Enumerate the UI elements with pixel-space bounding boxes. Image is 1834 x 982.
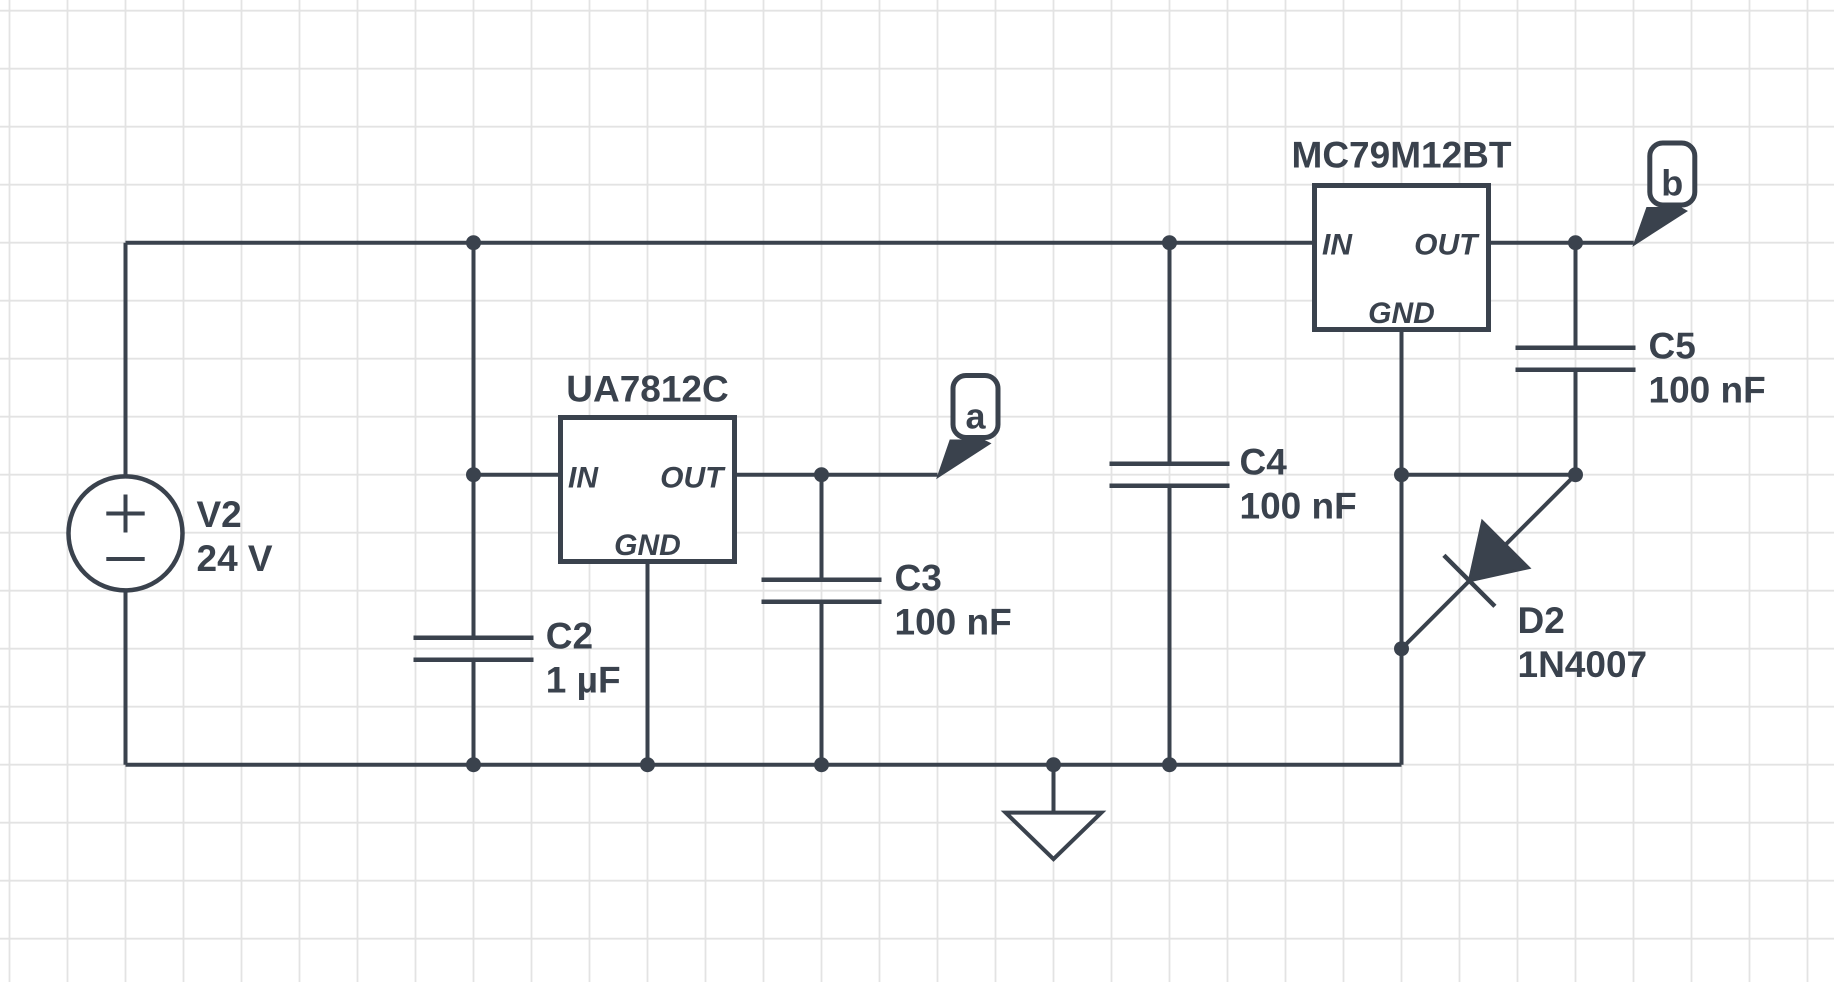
junction top rail / C4 — [1162, 235, 1177, 250]
junction U2 GND / D2 net — [1394, 467, 1409, 482]
wire V2 top lead — [124, 243, 128, 478]
svg-text:C2: C2 — [546, 616, 593, 657]
junction OUT rail / C5 — [1568, 235, 1583, 250]
node a flag — [938, 376, 999, 478]
capacitor C3 — [762, 580, 882, 602]
svg-text:OUT: OUT — [660, 462, 726, 495]
svg-text:100 nF: 100 nF — [1649, 370, 1766, 411]
svg-text:GND: GND — [1368, 297, 1435, 330]
junction bottom rail / C3 — [814, 757, 829, 772]
wire GND net to C5 bottom / D2 anode — [1402, 473, 1576, 477]
wire C4 upper lead from top rail — [1168, 243, 1172, 464]
wire UA7812C GND lead to bottom rail — [646, 562, 650, 765]
wire C2 lower lead to bottom rail — [472, 660, 476, 765]
svg-text:GND: GND — [614, 529, 681, 562]
value label D2 1N4007 — [1518, 600, 1648, 685]
capacitor C5 — [1516, 348, 1636, 370]
svg-text:IN: IN — [568, 462, 599, 495]
value label C5 100 nF — [1649, 326, 1766, 411]
svg-text:1N4007: 1N4007 — [1518, 644, 1648, 685]
wire MC79M12BT OUT to node b corner, C5 tap — [1489, 241, 1634, 245]
value label C2 1 uF — [546, 616, 621, 701]
capacitor C4 — [1110, 464, 1230, 486]
regulator U1 body UA7812C — [561, 418, 735, 562]
svg-text:MC79M12BT: MC79M12BT — [1292, 135, 1512, 176]
wire V2 bottom lead — [124, 589, 128, 765]
junction bottom rail / ground — [1046, 757, 1061, 772]
wire bottom ground rail — [126, 763, 1402, 767]
wire tap to UA7812C IN — [474, 473, 561, 477]
junction top rail / C2 — [466, 235, 481, 250]
wire C3 upper lead — [820, 475, 824, 580]
wire C5 lower lead — [1574, 370, 1578, 475]
value label C3 100 nF — [895, 558, 1012, 643]
voltage source V2 — [69, 476, 183, 590]
value label C4 100 nF — [1240, 442, 1357, 527]
wire top rail (V2 plus to MC79M12BT IN, node with C2 C4 taps) — [126, 241, 1315, 245]
junction U1 OUT / C3 — [814, 467, 829, 482]
svg-text:24 V: 24 V — [197, 538, 273, 579]
svg-text:a: a — [965, 396, 986, 437]
junction C2 / U1 IN tap — [466, 467, 481, 482]
svg-text:100 nF: 100 nF — [895, 602, 1012, 643]
svg-text:IN: IN — [1322, 229, 1353, 262]
wire C4 lower lead to bottom rail — [1168, 486, 1172, 765]
svg-text:C3: C3 — [895, 558, 942, 599]
wire C2 upper lead from top rail — [472, 243, 476, 638]
regulator U2 body MC79M12BT — [1315, 186, 1489, 330]
ground symbol — [1006, 765, 1102, 859]
svg-text:b: b — [1661, 163, 1683, 204]
svg-text:1 µF: 1 µF — [546, 660, 621, 701]
svg-text:V2: V2 — [197, 494, 242, 535]
wire C3 lower lead to bottom rail — [820, 602, 824, 765]
value label V2 24 V — [197, 494, 273, 579]
junction bottom rail / C2 — [466, 757, 481, 772]
junction C5 / D2 cathode — [1568, 467, 1583, 482]
wire MC79M12BT GND lead down to bottom rail — [1400, 330, 1404, 765]
wire C5 upper lead from OUT rail — [1574, 243, 1578, 348]
wire UA7812C OUT to node a corner, C3 tap — [735, 473, 938, 477]
svg-text:C5: C5 — [1649, 326, 1696, 367]
node b flag — [1634, 143, 1695, 245]
svg-text:UA7812C: UA7812C — [566, 369, 728, 410]
junction U2 GND lead / D2 anode — [1394, 641, 1409, 656]
svg-text:OUT: OUT — [1414, 229, 1480, 262]
svg-text:100 nF: 100 nF — [1240, 486, 1357, 527]
svg-text:D2: D2 — [1518, 600, 1565, 641]
junction bottom rail / U1 GND — [640, 757, 655, 772]
svg-text:C4: C4 — [1240, 442, 1288, 483]
diode D2 — [1402, 475, 1576, 649]
capacitor C2 — [414, 638, 534, 660]
junction bottom rail / C4 — [1162, 757, 1177, 772]
